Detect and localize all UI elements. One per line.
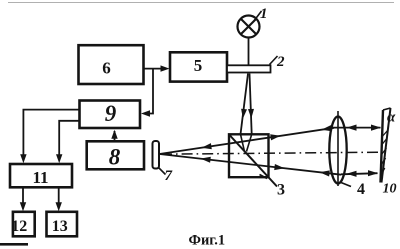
block 5 [170,52,227,81]
label 4 tick [341,183,351,187]
arrow 8 to 9 [111,130,117,139]
block 9 [80,101,141,129]
wire 9 to 11 right [59,121,79,155]
arrow into 13 [56,202,62,211]
svg-text:10: 10 [383,182,397,197]
arrow upper right near cube [270,134,280,140]
arrow into 5 [161,65,170,71]
arrow upper left near lens [322,125,332,131]
slit bar 2 [227,65,271,72]
block 13 [47,212,78,237]
hatching of wedge 10 [381,130,388,175]
svg-text:3: 3 [277,182,285,199]
svg-text:13: 13 [52,218,68,235]
optical axis (dash-dot) [161,152,381,154]
wire 11 to 13 [58,187,60,203]
wire lamp stem [248,38,250,66]
wire 6 to 5 [144,68,163,70]
label 1 tick [254,11,262,22]
ray slit right [250,74,252,135]
top rule [8,2,394,4]
svg-text:6: 6 [102,59,111,78]
surface tick on cube 3 [260,175,268,179]
label 7 tick [159,168,166,175]
arrow lower right near cube [274,164,284,170]
arrow into 12 [20,202,26,211]
wire 9 to 11 left [23,110,79,155]
label 2 tick [270,56,278,65]
bottom-left mark [0,243,28,246]
block 8 [87,141,144,169]
arrow into 9 right [141,110,150,116]
ray lower lens to wedge [341,173,378,174]
ray lower fan 7 to lens [160,154,342,175]
arrow top left of wedge segment [347,125,357,131]
block 11 [10,164,72,187]
wedge mirror 10 [381,108,391,183]
detector 7 [153,141,160,169]
ray upper fan 7 to lens [160,128,335,154]
svg-text:7: 7 [165,168,173,184]
svg-text:α: α [387,110,396,126]
arrow upper left near 7 [202,143,212,149]
arrow down right ray [248,109,254,119]
ray left inside cube [241,134,245,151]
wire 11 to 12 [22,187,24,203]
ray slit left [241,74,249,135]
svg-text:5: 5 [194,56,203,75]
arrow into 11 right [56,154,62,163]
arrow top into wedge [371,125,381,131]
svg-text:2: 2 [276,54,285,70]
svg-text:4: 4 [357,181,365,198]
svg-text:Фиг.1: Фиг.1 [189,233,226,249]
arrow bottom left of wedge segment [347,171,357,177]
arrow into 11 left [20,154,26,163]
ray upper lens to wedge [330,127,381,129]
ray right inside cube [247,134,252,151]
svg-text:1: 1 [260,6,268,22]
svg-text:12: 12 [11,218,27,235]
lens 4 [329,111,346,186]
block 6 [79,45,144,84]
svg-text:9: 9 [105,101,117,126]
beam splitter 3 (cube) [229,134,269,177]
lamp 1 (circle with X) [238,16,260,38]
arrow lower left near lens [320,170,330,176]
arrow down left ray [241,109,247,119]
diagonal of cube 3 [230,135,278,187]
svg-text:8: 8 [109,145,121,170]
svg-text:11: 11 [32,168,48,187]
arrow bottom into wedge [368,170,378,176]
block 12 [13,212,35,237]
arrow lower left near 7 [201,157,211,163]
wire 8 to 9 [114,131,116,142]
wire branch down to 9 [150,69,153,114]
